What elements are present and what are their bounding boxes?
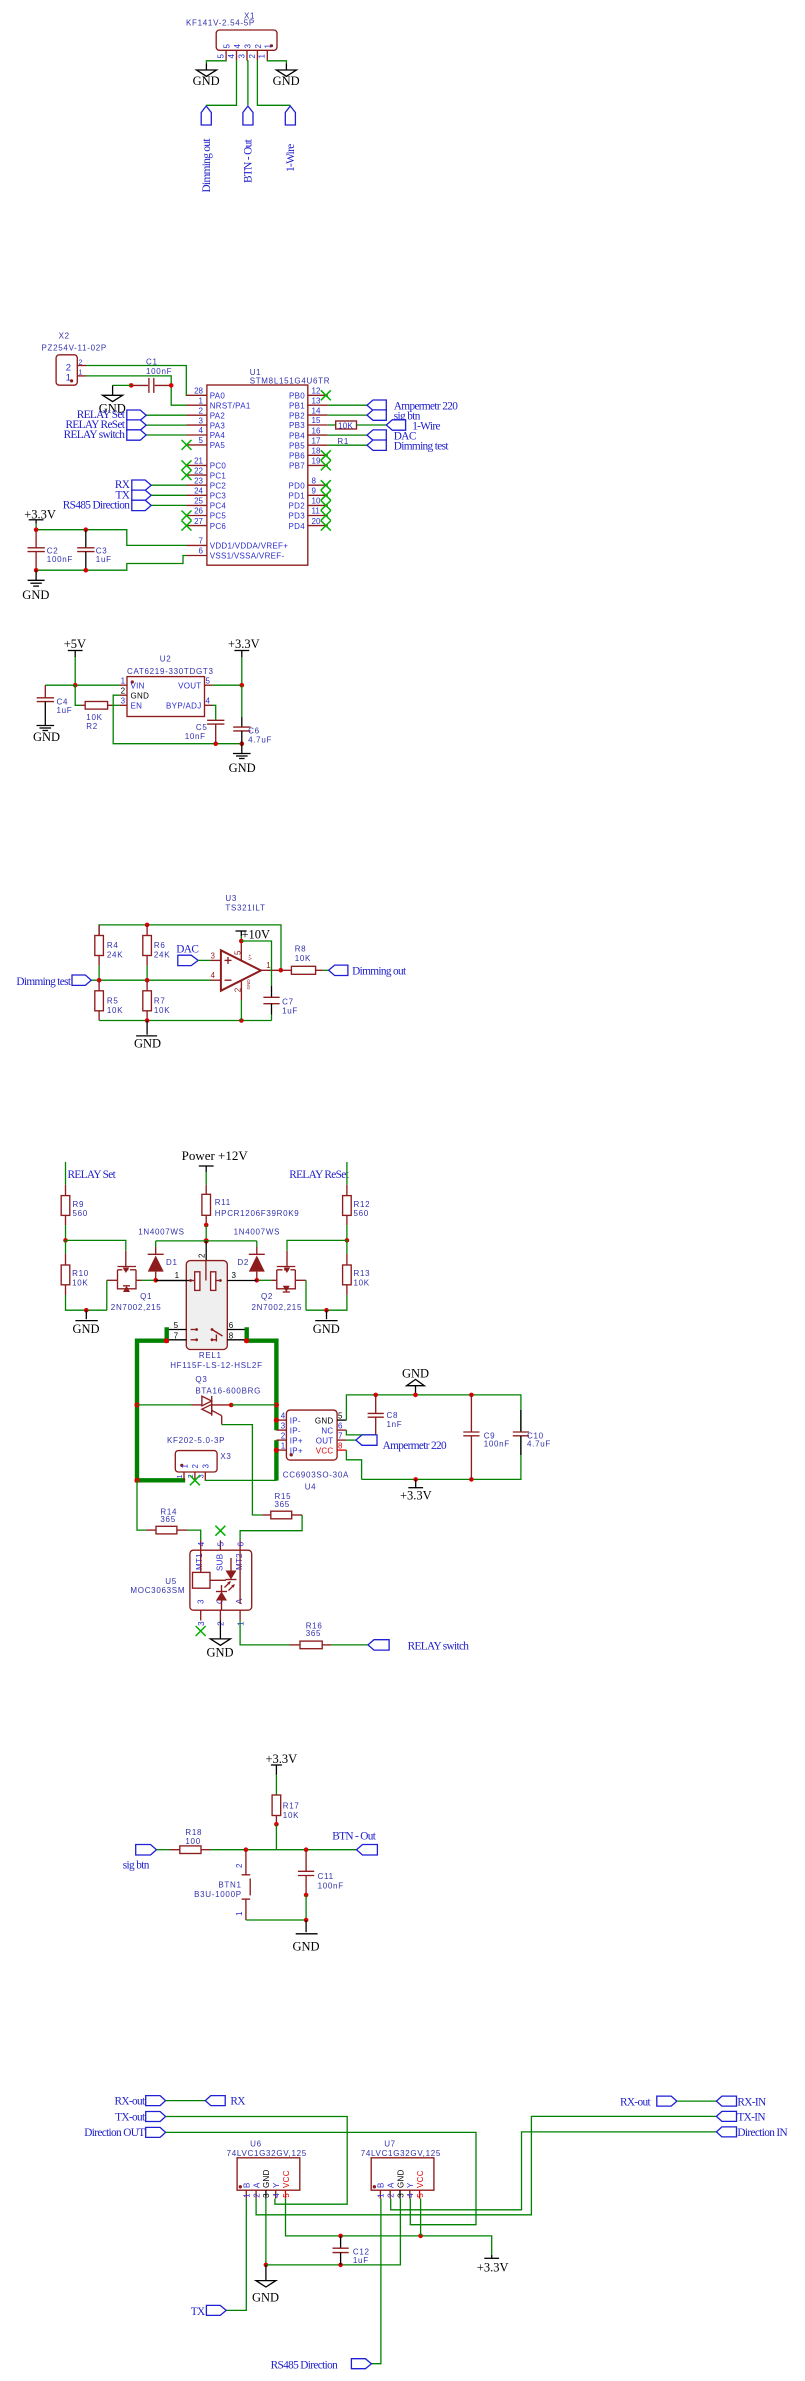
svg-text:C5: C5: [196, 723, 208, 732]
svg-text:2N7002,215: 2N7002,215: [252, 1303, 303, 1312]
U6 pin 2 A: [252, 2182, 261, 2199]
svg-text:2: 2: [387, 2193, 396, 2198]
node TX-out: [115, 2111, 165, 2123]
wire relay coil pin2: [205, 1241, 207, 1262]
svg-text:GND: GND: [402, 1367, 429, 1381]
resistor R11 HPCR1206F39R0K9: [202, 1185, 300, 1225]
U5 pin 2 C: [219, 1610, 221, 1620]
wire RELAY ReSet to U1: [146, 424, 186, 426]
svg-text:Direction OUT: Direction OUT: [84, 2127, 145, 2139]
svg-text:R8: R8: [295, 944, 307, 953]
svg-text:28: 28: [194, 387, 203, 396]
svg-text:3: 3: [396, 2193, 405, 2198]
svg-text:BTN - Out: BTN - Out: [243, 138, 255, 183]
svg-text:RX: RX: [230, 2095, 245, 2107]
diode D2 1N4007WS: [237, 1241, 264, 1280]
node TX-IN: [716, 2111, 765, 2123]
svg-text:B: B: [377, 2182, 386, 2188]
svg-text:RELAY Set: RELAY Set: [68, 1169, 117, 1181]
wire +3.3V bottom rail: [362, 1436, 521, 1480]
node RX-out right: [620, 2096, 677, 2108]
transistor Q1 2N7002,215: [107, 1251, 162, 1312]
svg-text:GND: GND: [396, 2169, 405, 2188]
wire X1 pin1 to GND: [267, 60, 286, 63]
svg-text:PC5: PC5: [210, 512, 227, 521]
IC U1 STM8L151G4U6TR: [182, 368, 331, 565]
U7 pin 2 A: [387, 2182, 396, 2199]
svg-text:TX: TX: [191, 2306, 205, 2318]
wire thick relay right contacts down: [247, 1327, 277, 1430]
wire R14 to U5 pin4: [187, 1530, 201, 1540]
svg-text:PB0: PB0: [289, 392, 305, 401]
svg-text:100nF: 100nF: [146, 367, 172, 376]
wire RX-out to RX-IN: [677, 2100, 717, 2102]
junction: [204, 1238, 209, 1243]
svg-text:10K: 10K: [354, 1279, 370, 1288]
wire RS485 Direction to U7.B: [371, 2199, 381, 2364]
wire triac gate to R15: [222, 1425, 263, 1515]
svg-text:Y: Y: [272, 2182, 281, 2188]
X1 pin 3: [237, 44, 252, 61]
svg-text:6: 6: [236, 1541, 245, 1546]
ground GND under U6: [252, 2265, 279, 2305]
svg-text:U5: U5: [165, 1577, 177, 1586]
svg-text:BTN - Out: BTN - Out: [332, 1830, 377, 1842]
wire bottom rail to C6: [216, 743, 242, 745]
svg-text:Ampermetr 220: Ampermetr 220: [383, 1440, 447, 1452]
U1 pin 28 PA0: [187, 387, 226, 401]
junction: [164, 1338, 169, 1343]
wire RX-out to RX: [166, 2100, 206, 2102]
REL1 pin 3: [227, 1280, 256, 1282]
X2 pin 1: [77, 375, 86, 377]
ground GND under C6: [229, 744, 256, 775]
U2 pin 4 BYP/ADJ: [205, 704, 213, 706]
resistor R4 24K: [95, 925, 123, 966]
svg-text:PA5: PA5: [210, 441, 226, 450]
svg-text:1N4007WS: 1N4007WS: [138, 1228, 185, 1237]
svg-text:OUT: OUT: [316, 1436, 334, 1445]
wire RELAY switch to U1: [146, 434, 186, 436]
junction: [373, 1393, 378, 1398]
X3 pin 3: [204, 1472, 206, 1480]
wire R16 to RELAY switch: [331, 1644, 368, 1646]
U5 pin 3 NC: [200, 1610, 202, 1620]
svg-text:U4: U4: [305, 1483, 317, 1492]
junction: [239, 1018, 244, 1023]
svg-text:2: 2: [281, 1432, 286, 1441]
REL1 pin 5: [167, 1329, 187, 1331]
junction: [145, 1018, 150, 1023]
U1 pin 21 PC0: [182, 457, 227, 471]
svg-text:4: 4: [281, 1412, 286, 1421]
svg-text:TX-out: TX-out: [115, 2111, 146, 2123]
U1 pin 22 PC1: [182, 466, 227, 480]
node BTN - Out: [332, 1830, 377, 1855]
svg-text:C6: C6: [248, 727, 260, 736]
connector X3 KF202-5.0-3P: [167, 1436, 232, 1485]
svg-text:100: 100: [185, 1837, 200, 1846]
svg-text:74LVC1G32GV,125: 74LVC1G32GV,125: [227, 2149, 307, 2158]
svg-text:3: 3: [199, 416, 204, 425]
ground GND under R7: [134, 1021, 161, 1051]
U1 pin 3 PA3: [187, 416, 226, 430]
junction: [84, 527, 89, 532]
U6 pin 1 B: [243, 2182, 252, 2198]
U2 pin 5 VOUT: [205, 684, 213, 686]
U1 pin 13 PB1: [289, 396, 328, 410]
wire +5V to U2.VIN: [75, 657, 119, 685]
svg-text:PD2: PD2: [289, 502, 306, 511]
power +10V: [236, 928, 271, 942]
wire sig btn to R18: [157, 1849, 171, 1851]
node RS485 Direction: [63, 499, 151, 511]
svg-text:GND: GND: [131, 691, 150, 700]
svg-text:4: 4: [227, 54, 236, 59]
svg-text:4.7uF: 4.7uF: [527, 1439, 551, 1448]
capacitor C10 4.7uF: [513, 1410, 551, 1455]
wire U7.VCC to +3.3V rail: [420, 2199, 422, 2236]
U2 pin 1 VIN: [120, 684, 127, 686]
pushbutton BTN1 B3U-1000P: [194, 1850, 250, 1920]
svg-text:IP-: IP-: [290, 1416, 301, 1425]
junction: [97, 978, 102, 983]
U4 pin 6 NC: [337, 1429, 346, 1431]
svg-text:A: A: [235, 1598, 244, 1604]
svg-text:GND: GND: [293, 1939, 320, 1953]
svg-text:RX-out: RX-out: [115, 2095, 147, 2107]
svg-text:100nF: 100nF: [47, 555, 73, 564]
wire +3.3V rail: [286, 2199, 492, 2255]
svg-text:365: 365: [306, 1629, 321, 1638]
wire C1 to GND: [113, 384, 132, 386]
svg-text:6: 6: [199, 547, 204, 556]
svg-text:560: 560: [354, 1209, 369, 1218]
wire R18 to BTN-Out: [210, 1849, 357, 1851]
wire +10V to V+: [240, 936, 242, 941]
svg-text:PD4: PD4: [289, 522, 306, 531]
op-amp pin 4: [211, 979, 221, 981]
junction: [239, 939, 244, 944]
svg-text:10: 10: [312, 497, 321, 506]
resistor R13 10K: [343, 1240, 371, 1295]
resistor R8 10K: [281, 944, 323, 974]
resistor R5 10K: [95, 980, 123, 1020]
svg-text:24K: 24K: [154, 951, 170, 960]
svg-text:74LVC1G32GV,125: 74LVC1G32GV,125: [361, 2149, 441, 2158]
wire thick relay left contacts to X3 pin1: [137, 1327, 185, 1480]
node TX: [116, 489, 152, 501]
power +3.3V under sensor: [400, 1479, 432, 1502]
svg-text:GND: GND: [73, 1322, 100, 1336]
svg-text:B: B: [243, 2182, 252, 2188]
junction: [169, 383, 174, 388]
svg-text:2: 2: [248, 54, 257, 59]
wire R12 node to Q2 gate: [287, 1240, 347, 1250]
wire C11 to GND rail: [305, 1895, 307, 1920]
svg-text:19: 19: [312, 457, 321, 466]
junction: [34, 568, 39, 573]
triac Q3 BTA16-600BRG: [192, 1375, 262, 1425]
node RELAY Set: [77, 409, 147, 421]
junction: [338, 2263, 343, 2268]
svg-text:3: 3: [243, 44, 252, 49]
svg-text:RELAY switch: RELAY switch: [64, 429, 126, 441]
svg-text:5: 5: [223, 44, 232, 49]
junction: [469, 1393, 474, 1398]
svg-text:2N7002,215: 2N7002,215: [111, 1303, 162, 1312]
U7 pin 1 B: [377, 2182, 386, 2198]
U1 pin 26 PC5: [182, 507, 227, 521]
U1 pin 16 PB4: [289, 426, 328, 440]
junction: [274, 1402, 279, 1407]
node Dimming test: [16, 975, 91, 988]
svg-text:2: 2: [217, 1621, 226, 1626]
svg-text:IP+: IP+: [290, 1446, 303, 1455]
op-amp pin 3: [211, 959, 221, 961]
svg-text:26: 26: [194, 507, 203, 516]
svg-text:BTA16-600BRG: BTA16-600BRG: [195, 1387, 261, 1396]
svg-text:27: 27: [194, 517, 203, 526]
U4 pin 5 GND: [337, 1419, 346, 1421]
junction: [279, 968, 284, 973]
svg-text:PC1: PC1: [210, 471, 227, 480]
svg-text:R5: R5: [107, 996, 119, 1005]
U6 pin 3 GND: [262, 2169, 271, 2198]
svg-text:9: 9: [312, 487, 317, 496]
svg-text:Dimming out: Dimming out: [352, 966, 407, 978]
svg-text:3: 3: [232, 1271, 237, 1280]
svg-text:10K: 10K: [86, 713, 102, 722]
resistor R9 560: [61, 1185, 88, 1225]
svg-text:1: 1: [175, 1271, 180, 1280]
junction: [204, 1223, 209, 1228]
svg-text:REL1: REL1: [199, 1351, 222, 1360]
svg-text:PB4: PB4: [289, 431, 305, 440]
U1 pin 27 PC6: [182, 517, 227, 531]
node TX: [191, 2305, 226, 2318]
wire triac line left: [137, 1404, 192, 1406]
wire BTN1 to GND rail: [246, 1919, 306, 1921]
svg-text:1: 1: [235, 1911, 244, 1916]
svg-text:BYP/ADJ: BYP/ADJ: [166, 702, 201, 711]
node Dimming test: [367, 440, 449, 452]
junction: [413, 1393, 418, 1398]
junction: [304, 1893, 309, 1898]
U1 pin 18 PB6: [289, 447, 331, 461]
wire thick sensor lower leg: [274, 1440, 278, 1480]
svg-text:R6: R6: [154, 941, 166, 950]
IC U7 74LVC1G32GV,125: [361, 2140, 441, 2199]
junction: [274, 1822, 279, 1827]
svg-text:GND: GND: [207, 1645, 234, 1659]
U1 pin 11 PD3: [289, 507, 331, 521]
svg-text:RELAY ReSet: RELAY ReSet: [289, 1169, 349, 1181]
wire X1 pin4 to Dimming out: [206, 60, 236, 105]
svg-text:+3.3V: +3.3V: [477, 2261, 509, 2275]
capacitor C9 100nF: [463, 1395, 510, 1480]
node BTN - Out: [243, 106, 255, 183]
ground GND under U5: [207, 1620, 234, 1659]
wire U5 pin1 to R16: [240, 1620, 289, 1645]
ground GND right of X1: [273, 64, 300, 88]
svg-text:560: 560: [73, 1209, 88, 1218]
svg-text:PB6: PB6: [289, 452, 305, 461]
svg-text:NRST/PA1: NRST/PA1: [210, 401, 251, 410]
svg-text:PC3: PC3: [210, 492, 227, 501]
wire Q1 drain to relay pin1: [142, 1279, 156, 1281]
svg-text:RX-IN: RX-IN: [737, 2096, 766, 2108]
svg-text:1N4007WS: 1N4007WS: [234, 1228, 281, 1237]
svg-text:VCC: VCC: [316, 1446, 334, 1455]
IC U5 MOC3063SM: [130, 1526, 251, 1636]
svg-text:Dimming test: Dimming test: [394, 440, 450, 452]
node RX-IN: [716, 2096, 766, 2108]
ground GND under C4: [33, 702, 60, 744]
svg-text:1uF: 1uF: [353, 2256, 369, 2265]
junction: [240, 683, 245, 688]
svg-text:C1: C1: [146, 358, 158, 367]
U1 pin 6 VSS1/VSSA/VREF-: [187, 547, 285, 561]
power Power +12V: [182, 1148, 249, 1172]
U4 pin 2 IP+: [276, 1439, 286, 1441]
svg-text:7: 7: [338, 1432, 343, 1441]
svg-text:VSS1/VSSA/VREF-: VSS1/VSSA/VREF-: [210, 552, 285, 561]
svg-text:365: 365: [160, 1515, 175, 1524]
svg-text:PC4: PC4: [210, 502, 227, 511]
wire +5V down to R2: [75, 685, 81, 705]
connector X1: [186, 11, 277, 60]
svg-text:A: A: [252, 2182, 261, 2188]
svg-text:10K: 10K: [338, 421, 353, 430]
capacitor C5 10nF: [185, 720, 225, 743]
svg-text:Q1: Q1: [140, 1292, 152, 1301]
relay REL1 HF115F-LS-12-HSL2F: [156, 1261, 263, 1370]
svg-text:10K: 10K: [107, 1006, 123, 1015]
wire RELAY Set to U1: [146, 414, 186, 416]
svg-text:4: 4: [406, 2193, 415, 2198]
wire U7.A to Direction IN: [391, 2132, 717, 2210]
REL1 contacts: [191, 1328, 223, 1341]
svg-text:GND: GND: [262, 2169, 271, 2188]
svg-text:R4: R4: [107, 941, 119, 950]
wire U1.VSS to GND rail: [36, 556, 186, 571]
svg-text:3: 3: [121, 697, 126, 706]
svg-text:PB2: PB2: [289, 411, 305, 420]
svg-text:PD3: PD3: [289, 512, 306, 521]
wire R2 to U2.EN: [112, 704, 120, 706]
wire DAC to op-amp pin3: [198, 959, 210, 961]
svg-text:3: 3: [197, 1599, 206, 1604]
wire RELAY ReSet to R12: [346, 1162, 348, 1185]
REL1 coil: [156, 1261, 222, 1291]
wire +12V rail D1 to D2: [156, 1240, 257, 1242]
capacitor C11 100nF: [298, 1850, 344, 1895]
svg-text:17: 17: [312, 436, 321, 445]
U5 internal graphics: [193, 1550, 241, 1610]
op-amp pin 2 V-: [240, 981, 242, 1000]
U5 pin 5 SUB: [219, 1540, 221, 1550]
svg-text:MT1: MT1: [195, 1553, 204, 1570]
svg-text:RS485 Direction: RS485 Direction: [271, 2359, 339, 2371]
svg-text:PD0: PD0: [289, 481, 306, 490]
svg-text:R18: R18: [185, 1828, 202, 1837]
svg-text:10K: 10K: [283, 1811, 299, 1820]
resistor R7 10K: [143, 980, 170, 1020]
U1 pin 4 PA4: [187, 426, 226, 440]
svg-text:RELAY switch: RELAY switch: [408, 1640, 470, 1652]
wire RS485 Direction to U1: [151, 504, 186, 506]
node Ampermetr 220: [367, 400, 458, 412]
svg-text:Q2: Q2: [261, 1292, 273, 1301]
capacitor C12 1uF: [333, 2236, 370, 2265]
svg-text:2: 2: [191, 1464, 200, 1469]
svg-text:1: 1: [258, 54, 267, 59]
svg-text:5: 5: [199, 436, 204, 445]
svg-text:VIN: VIN: [131, 681, 145, 690]
svg-text:2: 2: [252, 2193, 261, 2198]
U1 pin 7 VDD1/VDDA/VREF+: [187, 537, 289, 551]
resistor R16 365: [290, 1622, 332, 1649]
svg-text:4: 4: [272, 2193, 281, 2198]
svg-text:1-Wire: 1-Wire: [412, 420, 440, 432]
wire X3 pin3 to sensor output: [205, 1479, 276, 1481]
IC U4 CC6903SO-30A: [276, 1410, 349, 1491]
svg-text:3: 3: [211, 951, 216, 960]
svg-text:1: 1: [199, 396, 204, 405]
svg-text:18: 18: [312, 447, 321, 456]
svg-text:CAT6219-330TDGT3: CAT6219-330TDGT3: [127, 667, 214, 676]
junction: [304, 1847, 309, 1852]
resistor R12 560: [343, 1185, 371, 1225]
diode D1 1N4007WS: [148, 1241, 178, 1280]
wire Q1 source to GND: [106, 1280, 108, 1310]
wire RX to U1: [151, 484, 186, 486]
svg-text:RX-out: RX-out: [620, 2096, 652, 2108]
U4 pin 3 IP-: [276, 1429, 286, 1431]
capacitor C1: [131, 358, 172, 393]
svg-text:3: 3: [197, 1621, 206, 1626]
svg-text:GND: GND: [273, 74, 300, 88]
svg-text:sig btn: sig btn: [123, 1860, 150, 1872]
U1 pin 25 PC4: [187, 497, 227, 511]
svg-text:4.7uF: 4.7uF: [248, 736, 272, 745]
svg-text:1nF: 1nF: [387, 1420, 403, 1429]
wire X1 pin5 to GND: [206, 60, 226, 63]
svg-text:1uF: 1uF: [57, 706, 73, 715]
svg-text:24: 24: [194, 487, 203, 496]
svg-text:25: 25: [194, 497, 203, 506]
wire R15 to U5 pin6: [240, 1515, 302, 1540]
wire U6.GND to ground: [265, 2199, 267, 2265]
wire V- to bottom rail: [240, 1000, 242, 1021]
svg-text:16: 16: [312, 426, 321, 435]
X1 pin 5: [217, 44, 232, 61]
capacitor C3: [77, 530, 111, 571]
X1 pin 1: [258, 44, 273, 61]
svg-text:1: 1: [243, 2193, 252, 2198]
svg-text:HF115F-LS-12-HSL2F: HF115F-LS-12-HSL2F: [170, 1361, 262, 1370]
wire R1 to 1-Wire: [357, 424, 387, 426]
op-amp pin 5 V+: [240, 941, 242, 961]
wire feedback top rail: [99, 925, 281, 970]
svg-text:1uF: 1uF: [282, 1007, 298, 1016]
svg-text:2: 2: [254, 44, 263, 49]
ground GND earth under C2: [22, 570, 49, 602]
junction: [153, 1278, 158, 1283]
U5 pin 1 A: [239, 1610, 241, 1620]
wire R9 node to Q1 gate: [66, 1240, 126, 1250]
